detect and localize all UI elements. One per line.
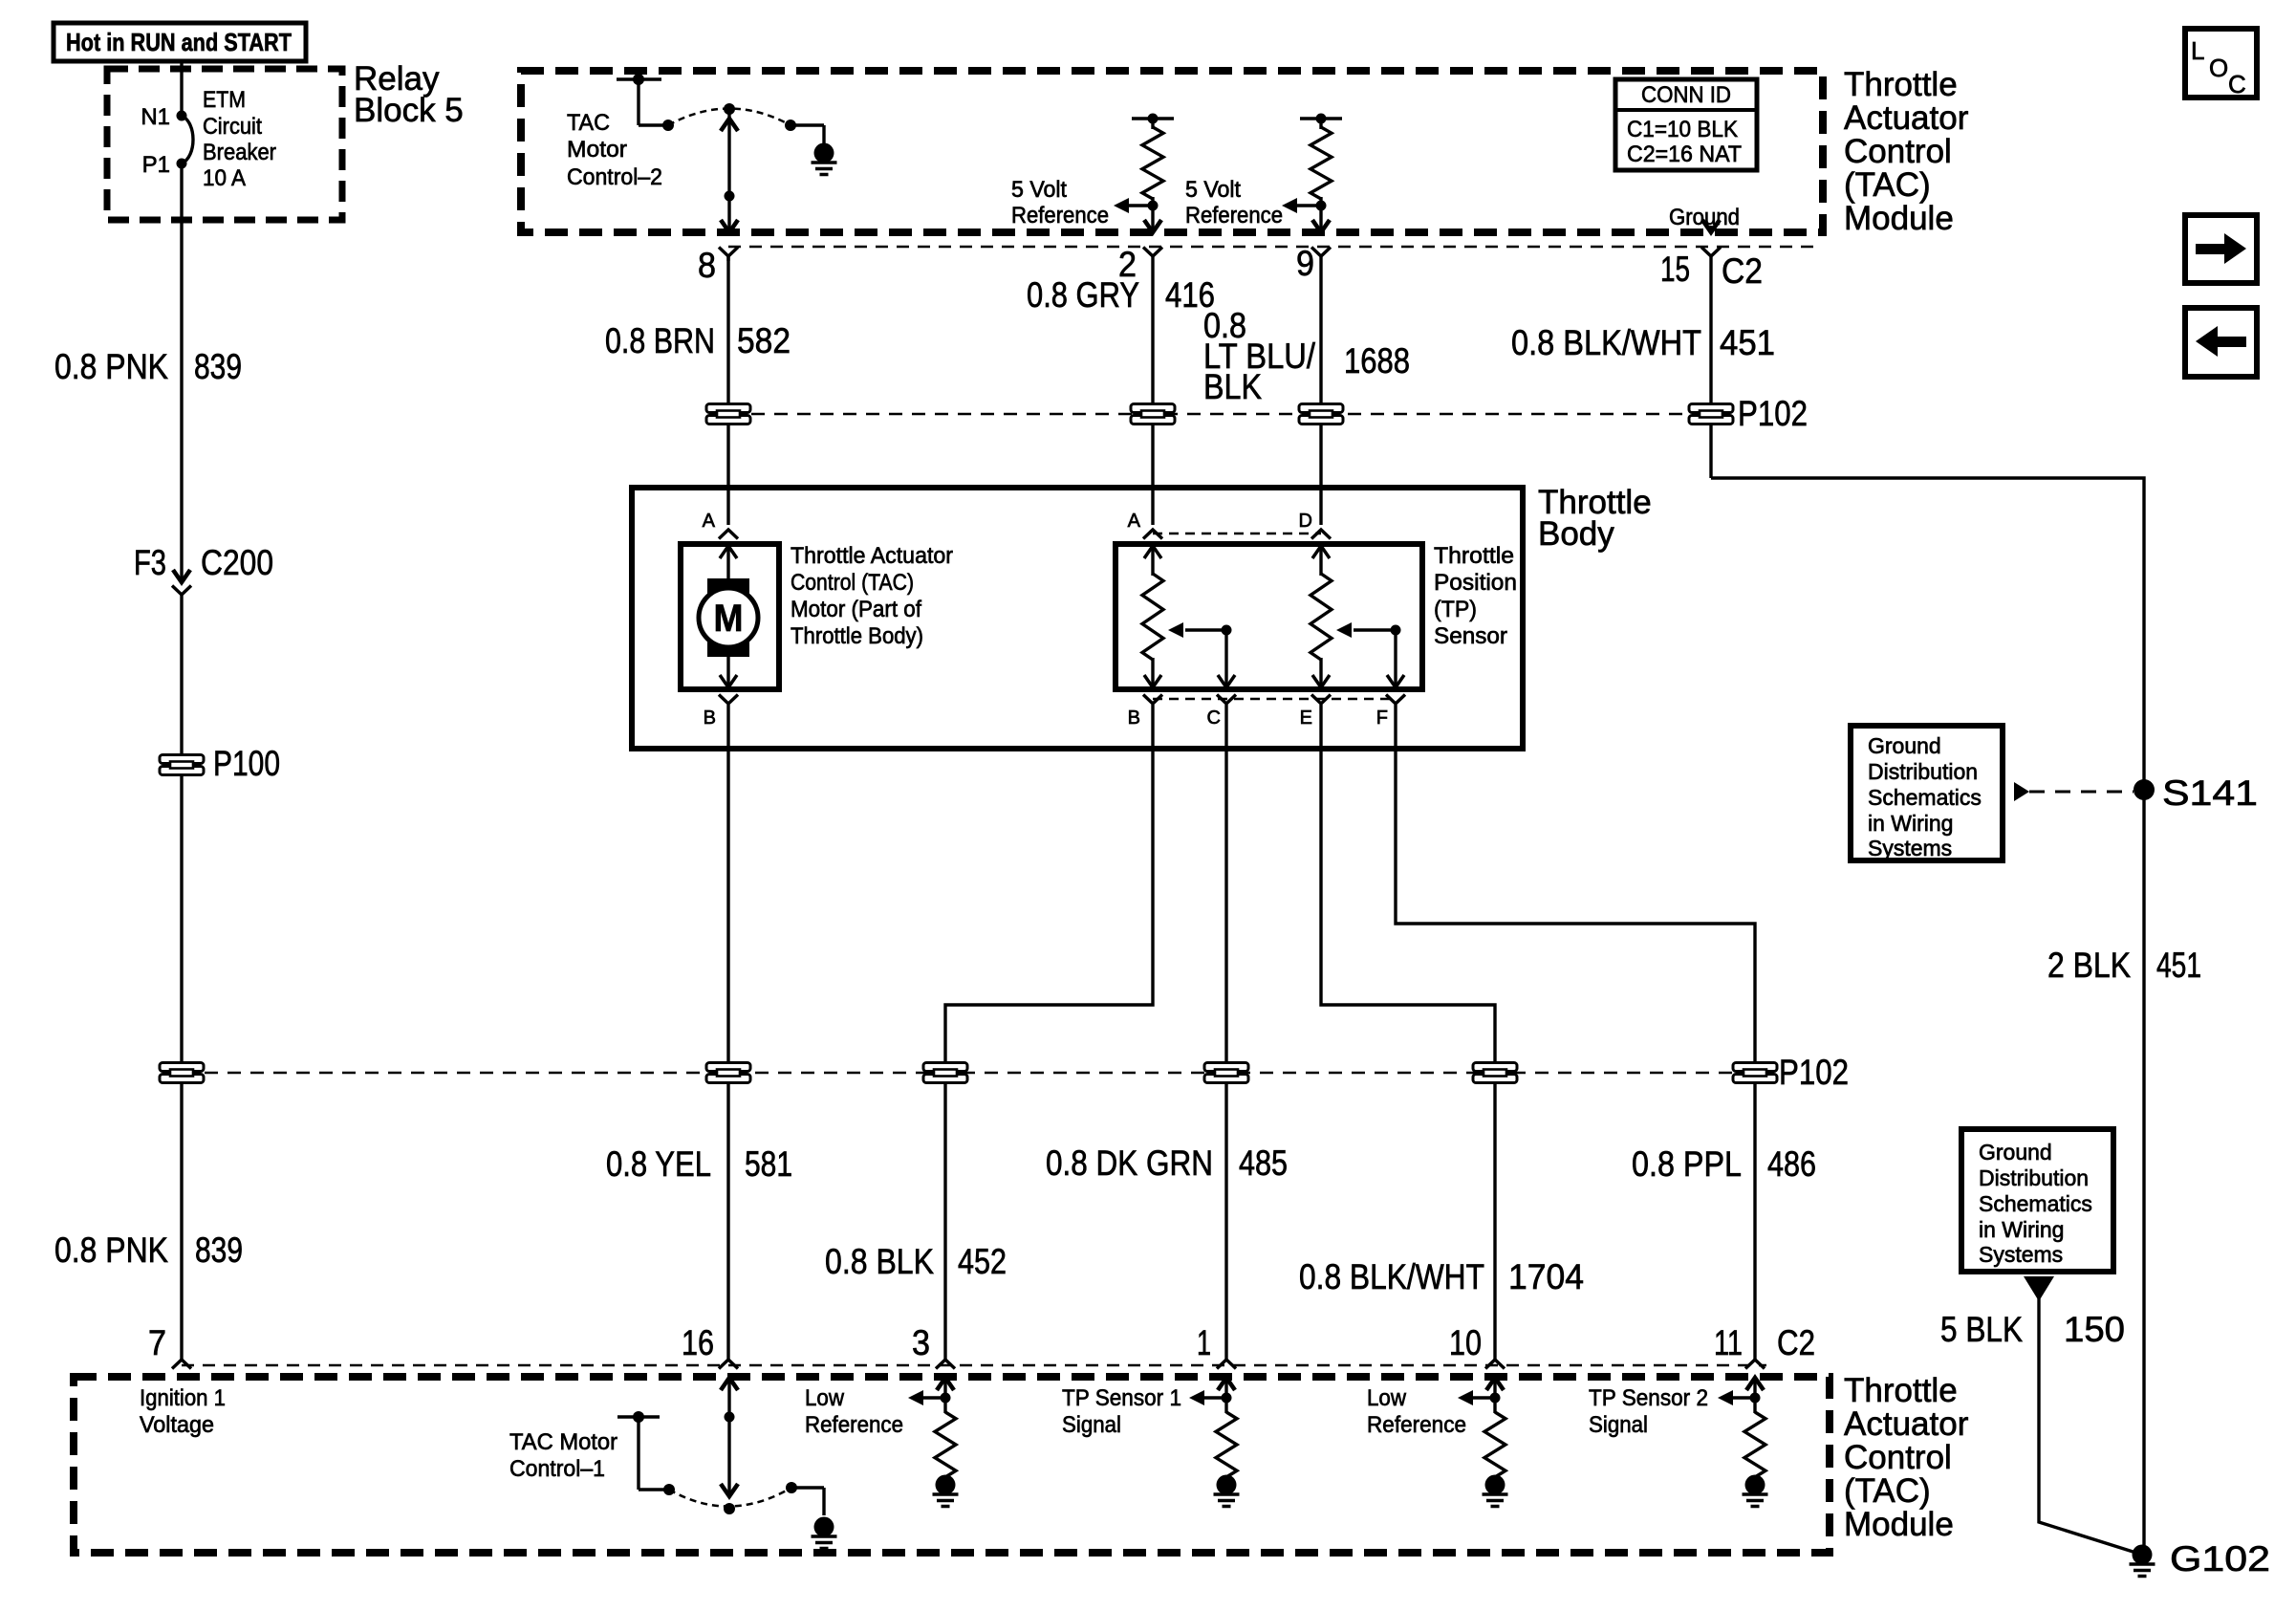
TP sensor 2 signal resistor (pin 11) <box>1718 1377 1768 1507</box>
svg-text:Ground: Ground <box>1979 1140 2052 1165</box>
svg-text:10: 10 <box>1449 1323 1482 1362</box>
svg-text:G102: G102 <box>2170 1539 2270 1578</box>
TAC module (top) dashed box <box>521 71 1823 232</box>
svg-text:5 BLK: 5 BLK <box>1940 1310 2023 1349</box>
svg-text:Throttle: Throttle <box>1434 543 1514 569</box>
svg-text:C2: C2 <box>1777 1323 1815 1362</box>
label TAC Motor Control-1 <box>509 1429 617 1482</box>
svg-text:Actuator: Actuator <box>1844 1405 1969 1443</box>
node N1 <box>141 104 186 130</box>
circuit breaker ETM 10 A <box>182 116 193 163</box>
svg-text:L: L <box>2191 36 2204 65</box>
connector C2 line (bottom) <box>182 1364 1766 1367</box>
svg-text:Signal: Signal <box>1589 1412 1648 1438</box>
TAC Motor Control-2 switch <box>617 74 824 232</box>
svg-text:TAC: TAC <box>567 110 610 136</box>
ground distribution schematics box 2 <box>1961 1129 2113 1272</box>
svg-text:Distribution: Distribution <box>1979 1165 2089 1190</box>
ground G102 <box>2130 1539 2271 1578</box>
svg-text:Throttle Body): Throttle Body) <box>791 623 923 649</box>
ground (TAC motor control-2) <box>812 143 837 175</box>
svg-text:Body: Body <box>1538 515 1614 553</box>
pin 9 <box>1296 244 1331 283</box>
svg-text:2 BLK: 2 BLK <box>2047 946 2131 985</box>
low reference resistor (pin 10) <box>1458 1377 1508 1507</box>
TAC motor pin B <box>704 695 738 729</box>
svg-text:P102: P102 <box>1779 1053 1849 1092</box>
throttle body box <box>632 488 1523 749</box>
TP sensor 1 signal resistor (pin 1) <box>1189 1377 1240 1507</box>
svg-text:P102: P102 <box>1738 394 1808 433</box>
svg-text:C: C <box>2228 70 2246 98</box>
label TP Sensor 2 Signal <box>1589 1385 1708 1438</box>
svg-text:5 Volt: 5 Volt <box>1185 177 1241 203</box>
ground distribution schematics box 1 <box>1851 726 2003 860</box>
svg-text:Circuit: Circuit <box>203 114 262 140</box>
svg-text:486: 486 <box>1767 1144 1816 1184</box>
svg-text:P100: P100 <box>213 744 280 783</box>
wire label 2 BLK 451 <box>2047 946 2201 985</box>
svg-text:(TP): (TP) <box>1434 597 1477 622</box>
svg-text:0.8 PNK: 0.8 PNK <box>54 1230 168 1270</box>
svg-text:Reference: Reference <box>1185 203 1283 229</box>
svg-text:16: 16 <box>682 1323 714 1362</box>
svg-text:Actuator: Actuator <box>1844 99 1969 137</box>
label Ground <box>1669 205 1740 230</box>
label Low Reference (pin 10) <box>1367 1385 1466 1438</box>
arrow box (right) <box>2185 215 2257 283</box>
wire 0.8 BLK 452 <box>825 705 1153 1360</box>
LOC legend box <box>2185 29 2257 98</box>
svg-text:0.8 PNK: 0.8 PNK <box>54 347 168 386</box>
wire 0.8 PPL 486 <box>1396 705 1816 1360</box>
svg-text:582: 582 <box>737 321 791 360</box>
wire 0.8 BLK/WHT 1704 <box>1299 705 1584 1360</box>
label Ignition 1 Voltage <box>140 1385 226 1438</box>
pin 10 <box>1449 1323 1505 1369</box>
svg-text:Voltage: Voltage <box>140 1412 214 1438</box>
pin 15 C2 <box>1660 248 1763 292</box>
pin 8 <box>698 246 738 285</box>
svg-text:581: 581 <box>745 1144 792 1184</box>
TAC module (bottom) dashed box <box>74 1377 1830 1553</box>
svg-text:451: 451 <box>1720 323 1775 362</box>
svg-text:0.8 BLK/WHT: 0.8 BLK/WHT <box>1511 323 1701 362</box>
label Throttle Position (TP) Sensor <box>1434 543 1517 649</box>
wire 0.8 DK GRN 485 <box>1046 705 1288 1360</box>
pin 7 <box>148 1323 191 1369</box>
wire label 0.8 PNK 839 (lower) <box>54 1230 243 1270</box>
motor M (TAC motor) <box>699 544 758 687</box>
svg-text:Throttle Actuator: Throttle Actuator <box>791 543 953 569</box>
TP sensor potentiometer 1 <box>1142 544 1235 687</box>
svg-text:Control: Control <box>1844 1439 1952 1476</box>
wire 0.8 YEL 581 <box>606 705 792 1360</box>
label Throttle Actuator Control (TAC) Module (bottom) <box>1844 1372 1969 1543</box>
svg-text:C: C <box>1207 708 1221 729</box>
svg-text:9: 9 <box>1296 244 1314 283</box>
svg-text:Schematics: Schematics <box>1979 1191 2092 1216</box>
svg-text:0.8 PPL: 0.8 PPL <box>1632 1144 1742 1184</box>
label TP Sensor 1 Signal <box>1062 1385 1181 1438</box>
svg-text:Low: Low <box>805 1385 845 1411</box>
svg-text:S141: S141 <box>2162 773 2258 813</box>
label 5 Volt Reference (pin 9) <box>1185 177 1283 229</box>
svg-text:Control–2: Control–2 <box>567 164 662 190</box>
svg-text:Ignition 1: Ignition 1 <box>140 1385 226 1411</box>
svg-text:451: 451 <box>2156 946 2201 985</box>
svg-text:in Wiring: in Wiring <box>1979 1217 2064 1242</box>
svg-text:Systems: Systems <box>1868 836 1952 860</box>
svg-text:Reference: Reference <box>805 1412 903 1438</box>
TP sensor pin A <box>1128 511 1162 539</box>
TP sensor pin D <box>1299 511 1331 539</box>
pin 11 C2 <box>1714 1323 1815 1369</box>
connector P100 <box>160 744 280 783</box>
wire 0.8 PNK 839 (ignition feed) <box>180 61 183 1360</box>
svg-text:Control (TAC): Control (TAC) <box>791 570 914 596</box>
svg-text:Motor: Motor <box>567 137 627 163</box>
svg-text:C2=16 NAT: C2=16 NAT <box>1627 142 1742 167</box>
label Throttle Actuator Control (TAC) Motor (Part of Throttle Body) <box>791 543 953 649</box>
svg-text:Block 5: Block 5 <box>354 92 464 129</box>
svg-text:Motor (Part of: Motor (Part of <box>791 597 921 622</box>
svg-text:TAC Motor: TAC Motor <box>509 1429 617 1455</box>
svg-text:1704: 1704 <box>1508 1257 1584 1296</box>
svg-text:485: 485 <box>1239 1143 1288 1183</box>
wire 0.8 GRY 416 <box>1027 254 1215 525</box>
svg-text:B: B <box>1128 708 1140 729</box>
svg-text:10 A: 10 A <box>203 165 246 191</box>
svg-text:TP Sensor 2: TP Sensor 2 <box>1589 1385 1708 1411</box>
node P1 <box>142 152 187 178</box>
svg-text:Sensor: Sensor <box>1434 623 1507 649</box>
svg-text:11: 11 <box>1714 1323 1743 1362</box>
TP sensor box <box>1116 544 1422 689</box>
svg-text:Control: Control <box>1844 133 1952 170</box>
svg-text:7: 7 <box>148 1323 166 1362</box>
svg-text:15: 15 <box>1660 250 1690 289</box>
svg-text:Systems: Systems <box>1979 1242 2063 1267</box>
connector P102 (lower row) <box>160 1053 1849 1092</box>
svg-text:A: A <box>1128 511 1141 532</box>
arrow box (left) <box>2185 308 2257 377</box>
svg-text:Reference: Reference <box>1011 203 1109 229</box>
svg-text:B: B <box>704 708 716 729</box>
wire 5 BLK 150 <box>1940 1276 2142 1555</box>
pin 2 <box>1118 245 1162 284</box>
pin 3 <box>912 1323 955 1369</box>
label box: Hot in RUN and START <box>54 23 306 61</box>
wire stub pin 15 ground <box>1702 220 1720 232</box>
svg-text:Schematics: Schematics <box>1868 785 1982 810</box>
svg-text:A: A <box>703 511 716 532</box>
wire 0.8 LT BLU/BLK 1688 <box>1203 254 1410 525</box>
svg-text:1: 1 <box>1197 1323 1211 1362</box>
pin 16 <box>682 1323 738 1369</box>
connector C2 line (top) <box>728 246 1822 249</box>
svg-text:N1: N1 <box>141 104 170 130</box>
svg-text:Ground: Ground <box>1669 205 1740 230</box>
TAC motor box <box>681 544 779 689</box>
svg-text:0.8 BLK: 0.8 BLK <box>825 1242 934 1281</box>
svg-text:0.8 DK GRN: 0.8 DK GRN <box>1046 1143 1213 1183</box>
svg-text:O: O <box>2209 54 2228 82</box>
wire 0.8 BLK/WHT 451 <box>1511 254 2144 1555</box>
fuse block: Relay Block 5 dashed box <box>107 69 342 220</box>
svg-text:E: E <box>1300 708 1312 729</box>
svg-text:Control–1: Control–1 <box>509 1456 605 1482</box>
svg-text:0.8 GRY: 0.8 GRY <box>1027 275 1139 315</box>
svg-text:839: 839 <box>195 1230 243 1270</box>
svg-text:M: M <box>714 598 744 640</box>
svg-text:0.8 BLK/WHT: 0.8 BLK/WHT <box>1299 1257 1484 1296</box>
svg-text:Position: Position <box>1434 570 1517 596</box>
label Throttle Body <box>1538 484 1652 553</box>
label ETM Circuit Breaker 10 A <box>203 87 276 191</box>
wire label 0.8 PNK 839 (upper) <box>54 347 242 386</box>
svg-text:Module: Module <box>1844 1506 1954 1543</box>
resistor 5 Volt Reference (pin 2) <box>1114 114 1174 233</box>
CONN ID table <box>1615 79 1757 170</box>
svg-text:Reference: Reference <box>1367 1412 1466 1438</box>
svg-text:0.8 BRN: 0.8 BRN <box>605 321 715 360</box>
svg-text:1688: 1688 <box>1344 341 1410 381</box>
label 5 Volt Reference (pin 2) <box>1011 177 1109 229</box>
svg-text:Distribution: Distribution <box>1868 759 1978 784</box>
svg-text:(TAC): (TAC) <box>1844 1472 1931 1510</box>
resistor 5 Volt Reference (pin 9) <box>1282 114 1342 233</box>
svg-text:(TAC): (TAC) <box>1844 166 1931 204</box>
TP sensor pins B C E F <box>1128 695 1405 729</box>
svg-text:Throttle: Throttle <box>1844 66 1958 103</box>
ground (TAC motor control-1) <box>812 1517 837 1549</box>
svg-text:Signal: Signal <box>1062 1412 1121 1438</box>
svg-text:TP Sensor 1: TP Sensor 1 <box>1062 1385 1181 1411</box>
svg-text:3: 3 <box>912 1323 930 1362</box>
svg-text:Breaker: Breaker <box>203 140 276 165</box>
label Relay Block 5 <box>354 60 464 129</box>
svg-text:CONN ID: CONN ID <box>1641 82 1731 108</box>
label TAC Motor Control-2 <box>567 110 662 190</box>
connector C200 pin F3 <box>134 543 273 595</box>
svg-text:Module: Module <box>1844 200 1954 237</box>
svg-text:839: 839 <box>194 347 242 386</box>
TAC motor pin A <box>703 511 738 539</box>
TP sensor connector dashes (top) <box>1153 533 1321 535</box>
wire 0.8 BRN 582 <box>605 254 791 525</box>
svg-text:F3: F3 <box>134 543 166 582</box>
svg-text:452: 452 <box>958 1242 1007 1281</box>
svg-text:Low: Low <box>1367 1385 1407 1411</box>
TAC Motor Control-1 switch <box>617 1377 824 1515</box>
label Throttle Actuator Control (TAC) Module (top) <box>1844 66 1969 237</box>
svg-text:0.8 YEL: 0.8 YEL <box>606 1144 711 1184</box>
svg-text:8: 8 <box>698 246 716 285</box>
svg-text:C1=10 BLK: C1=10 BLK <box>1627 117 1738 142</box>
svg-text:Throttle: Throttle <box>1844 1372 1958 1409</box>
svg-text:C2: C2 <box>1722 251 1763 291</box>
pin 1 <box>1197 1323 1236 1369</box>
svg-text:ETM: ETM <box>203 87 246 113</box>
svg-text:C200: C200 <box>201 543 273 582</box>
low reference resistor (pin 3) <box>908 1377 959 1507</box>
label Low Reference (pin 3) <box>805 1385 903 1438</box>
svg-text:5 Volt: 5 Volt <box>1011 177 1067 203</box>
svg-text:D: D <box>1299 511 1312 532</box>
TP sensor potentiometer 2 <box>1310 544 1404 687</box>
node S141 <box>2014 773 2258 813</box>
svg-text:BLK: BLK <box>1203 367 1262 406</box>
svg-text:Hot in RUN and START: Hot in RUN and START <box>66 28 292 56</box>
svg-text:P1: P1 <box>142 152 170 178</box>
svg-text:150: 150 <box>2064 1310 2125 1349</box>
svg-text:F: F <box>1376 708 1388 729</box>
svg-text:Ground: Ground <box>1868 733 1941 758</box>
connector P102 (top row) <box>706 394 1808 433</box>
svg-text:in Wiring: in Wiring <box>1868 811 1953 836</box>
